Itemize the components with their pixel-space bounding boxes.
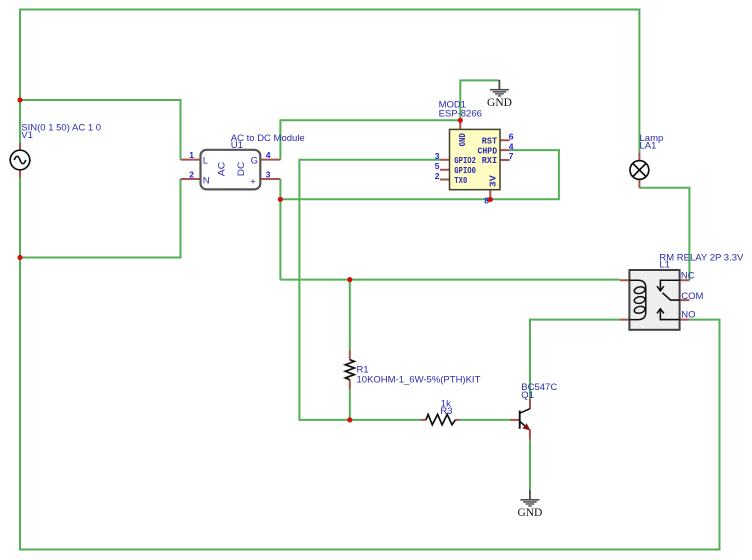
svg-text:R3: R3 [440,406,452,417]
svg-text:RXI: RXI [482,156,497,166]
wire top loop V1 to Lamp [20,10,639,153]
wire Q1 emitter down to ground symbol [529,439,531,489]
svg-text:3: 3 [266,169,271,179]
ground GND1 (near ESP) [487,80,512,109]
wire rail junction down to R1 top [349,280,351,350]
junction node base row/R1 [347,417,352,422]
junction node ESP 3V [488,197,493,202]
svg-text:GPIO2: GPIO2 [454,156,476,166]
svg-text:NC: NC [681,270,695,281]
wire Q1 collector up to relay coil bottom [530,320,620,399]
svg-text:LA1: LA1 [640,140,657,151]
svg-text:GPIO0: GPIO0 [454,166,476,176]
relay L1 [620,270,690,330]
svg-text:TX0: TX0 [454,176,467,186]
svg-text:NO: NO [681,310,695,321]
svg-text:SIN(0 1 50) AC 1 0: SIN(0 1 50) AC 1 0 [21,123,101,134]
svg-text:V1: V1 [21,130,33,141]
relay NO contact [660,309,679,319]
svg-text:L: L [203,155,208,166]
wire 3V3 rail horizontal to CHPD riser [280,150,559,199]
svg-text:7: 7 [509,151,514,161]
relay coil [629,280,645,319]
wire ESP GND junction to ground symbol [460,80,499,120]
svg-text:G: G [251,155,258,166]
wire lamp bottom to relay NC [639,188,689,280]
svg-text:10KOHM-1_6W-5%(PTH)KIT: 10KOHM-1_6W-5%(PTH)KIT [357,374,481,385]
svg-text:GND: GND [458,133,468,147]
svg-text:RM RELAY 2P 3.3V: RM RELAY 2P 3.3V [659,252,744,263]
wire U1 pin2 to junction B [20,179,181,258]
svg-text:6: 6 [509,131,514,141]
relay COM contact [663,293,680,300]
svg-text:2: 2 [189,169,194,179]
junction node 3V3 at U1 [278,197,283,202]
svg-text:2: 2 [435,171,440,181]
lamp LA1 [630,152,649,187]
ESP-8266 module MOD1 [440,120,510,199]
wire U1 pin3 down to 3V3 rail [279,179,281,280]
svg-text:1: 1 [189,150,194,160]
relay NC contact [660,280,679,290]
svg-text:RST: RST [482,136,498,146]
svg-text:5: 5 [435,161,440,171]
wire 3V3 rail to relay coil top [280,279,619,281]
wire U1 pin4 to ESP GND junction [280,120,460,159]
svg-text:Q1: Q1 [521,390,534,401]
ground GND2 (Q1 emitter) [517,490,542,519]
svg-text:DC: DC [236,162,247,177]
svg-text:AC: AC [216,162,227,177]
resistor R3 [420,414,460,424]
AC to DC module U1 [181,150,281,190]
transistor Q1 [510,399,530,440]
svg-text:CHPD: CHPD [478,146,498,156]
junction node ESP GND [458,118,463,123]
svg-text:+: + [250,176,256,187]
junction node B (bottom left) [17,255,22,260]
svg-text:U1: U1 [231,140,243,151]
svg-text:GND: GND [487,97,512,109]
svg-text:3V: 3V [488,175,498,188]
wire junction A to U1 pin1 [20,100,181,160]
svg-text:GND: GND [517,507,542,519]
svg-text:COM: COM [681,291,703,302]
resistor R1 [345,350,354,389]
svg-text:L1: L1 [659,259,670,270]
wire R1 bottom to base row junction [349,389,351,420]
svg-text:N: N [203,175,210,186]
wire R3 right to Q1 base [460,419,510,421]
junction node A (top left) [17,97,22,102]
svg-text:4: 4 [509,141,514,151]
wire ESP GPIO2 left and down to base row [299,160,440,420]
svg-text:4: 4 [266,150,271,160]
wire V1 bottom to bottom border to relay NO [20,178,720,550]
voltage source V1 [10,143,30,178]
junction node rail/R1 [347,277,352,282]
svg-text:3: 3 [435,151,440,161]
